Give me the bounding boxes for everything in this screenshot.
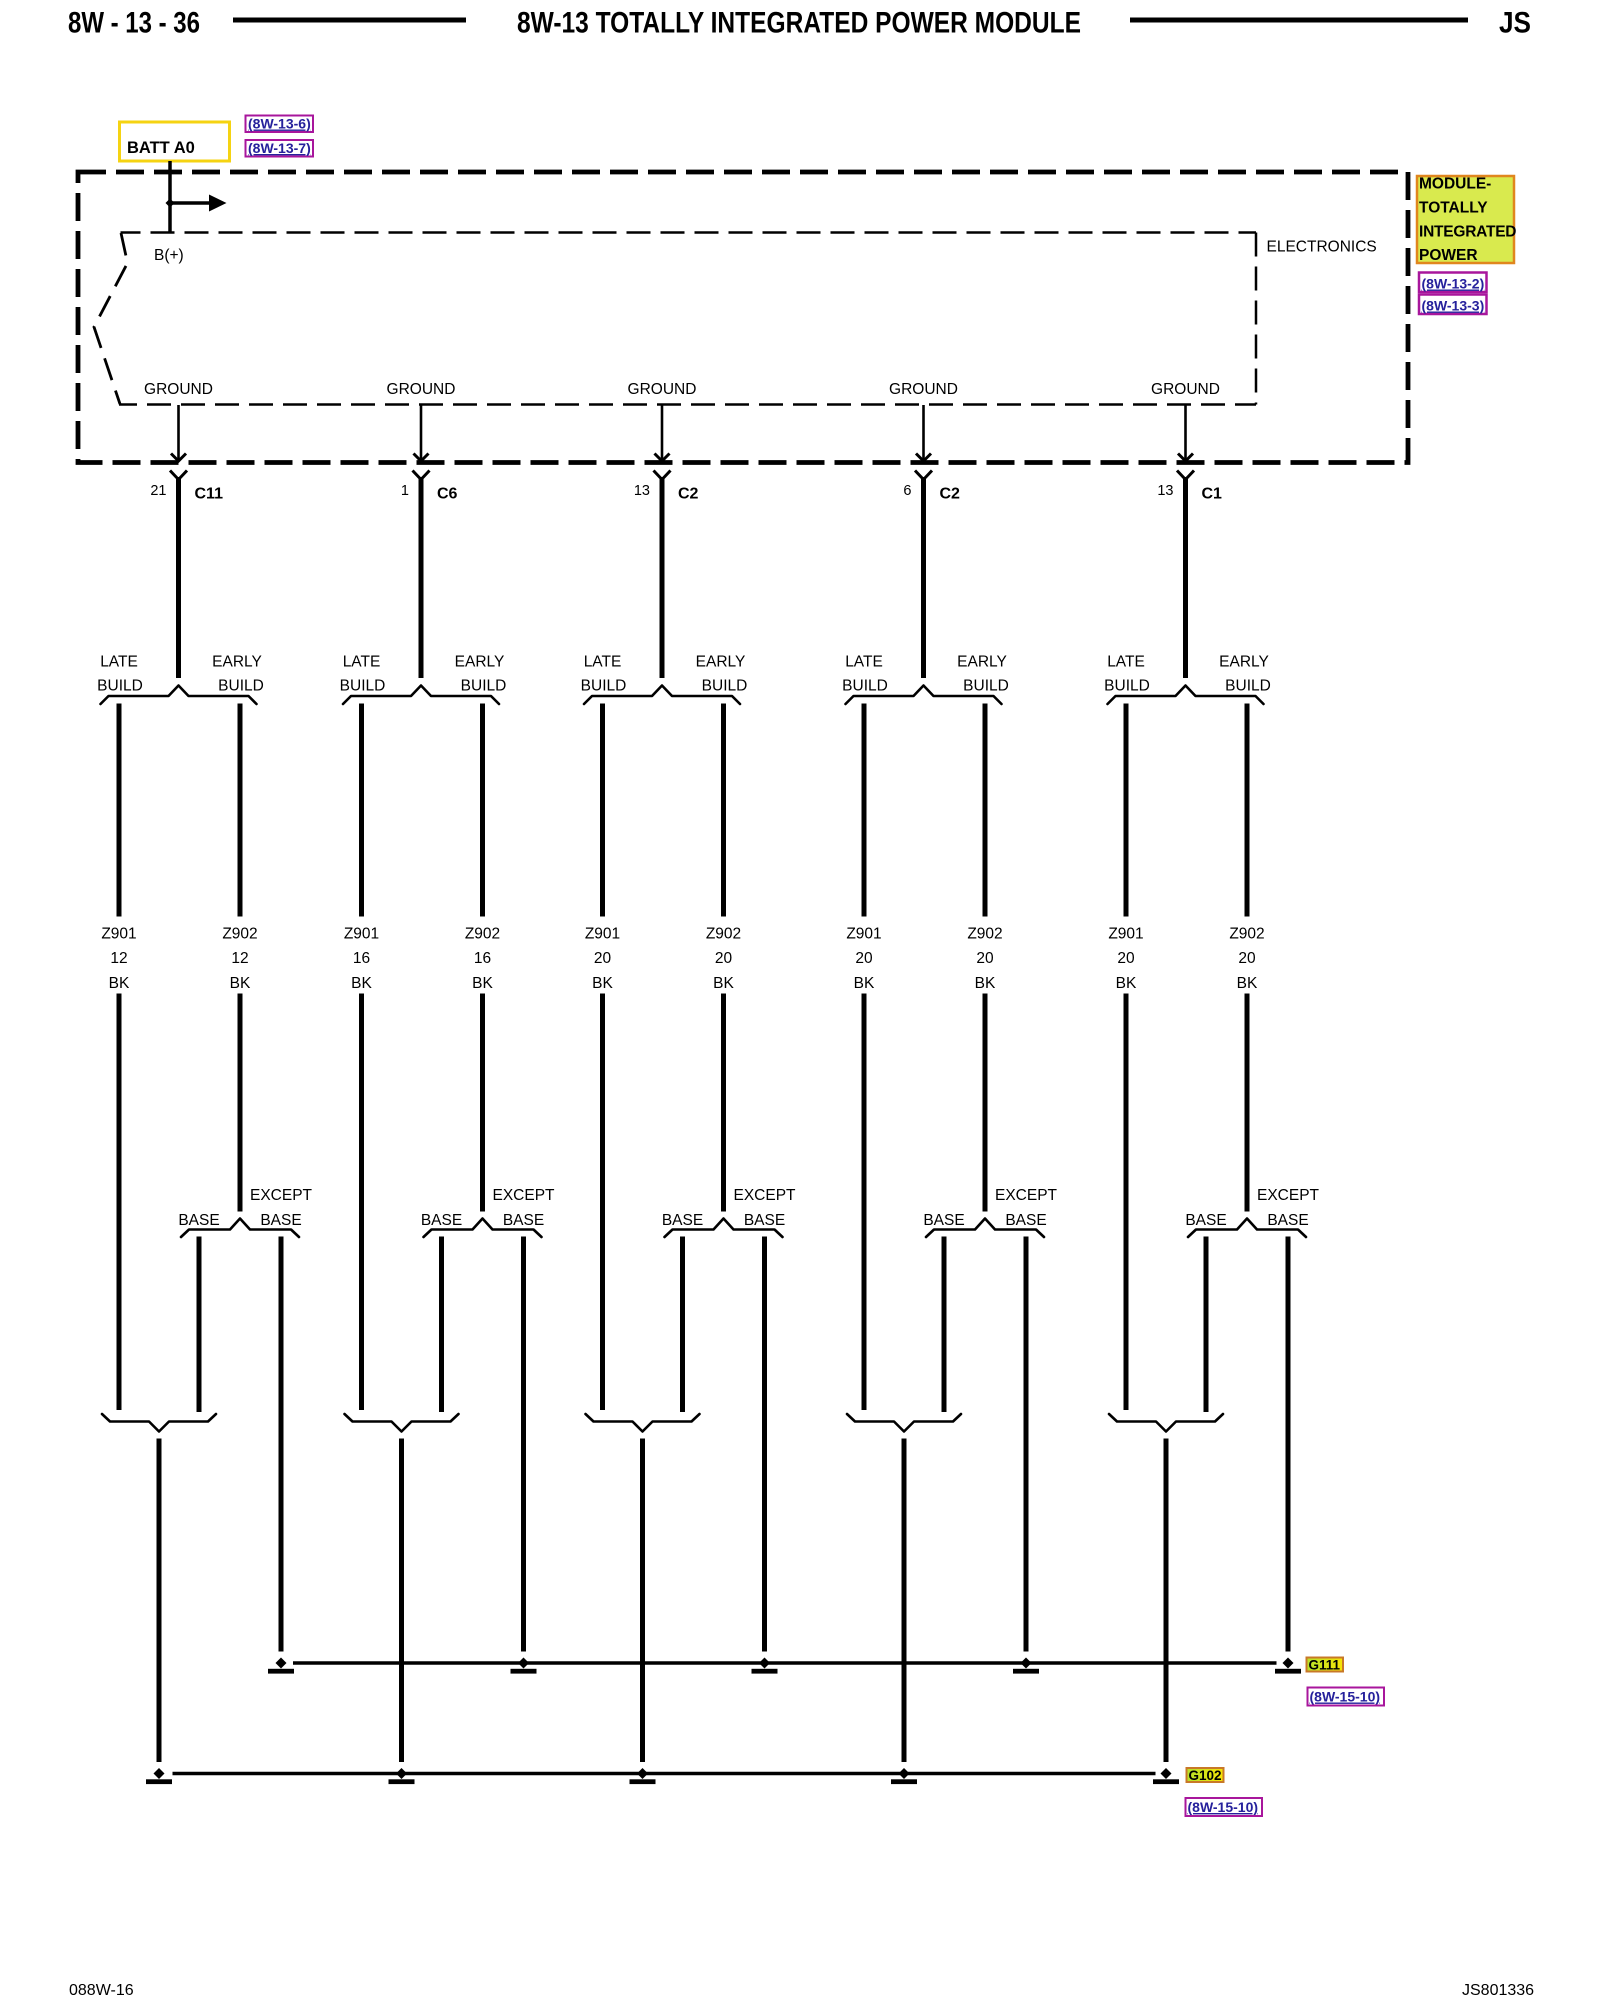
merge brace 2 — [345, 1414, 459, 1432]
module name label MODULE-TOTALLY INTEGRATED POWER — [1417, 176, 1517, 265]
wire Z902 early upper 3 — [721, 704, 726, 917]
svg-text:EARLY: EARLY — [957, 654, 1007, 671]
svg-text:GROUND: GROUND — [1151, 381, 1220, 398]
svg-text:BK: BK — [472, 975, 493, 992]
wire label Z902 16 BK — [465, 926, 500, 993]
wire Z902 early upper 5 — [1245, 704, 1250, 917]
svg-text:BUILD: BUILD — [963, 678, 1009, 695]
svg-text:12: 12 — [231, 950, 248, 967]
ground G111 label — [1307, 1658, 1344, 1673]
late build label 1 — [97, 654, 143, 695]
svg-text:TOTALLY: TOTALLY — [1419, 200, 1488, 217]
early build label 4 — [957, 654, 1009, 695]
wire Z901 late lower 1 — [117, 994, 122, 1411]
svg-text:EXCEPT: EXCEPT — [733, 1187, 796, 1204]
svg-text:LATE: LATE — [845, 654, 883, 671]
wire label Z902 12 BK — [222, 926, 257, 993]
svg-text:POWER: POWER — [1419, 247, 1478, 264]
early build label 3 — [696, 654, 748, 695]
wire label Z901 20 BK — [846, 926, 881, 993]
svg-text:20: 20 — [1238, 950, 1256, 967]
arrow internal feed — [170, 195, 227, 212]
wire Z901 late upper 5 — [1124, 704, 1129, 917]
wire merged to G102 1 — [157, 1439, 162, 1763]
svg-text:BK: BK — [713, 975, 734, 992]
svg-text:EXCEPT: EXCEPT — [250, 1187, 313, 1204]
build split brace 2 — [343, 686, 499, 705]
terminator bar G102 column 2 — [389, 1779, 415, 1784]
svg-text:12: 12 — [110, 950, 127, 967]
svg-text:C6: C6 — [437, 486, 458, 503]
wire label Z901 12 BK — [101, 926, 136, 993]
svg-text:JS801336: JS801336 — [1462, 1982, 1534, 1999]
base split brace 2 — [424, 1219, 542, 1238]
svg-text:16: 16 — [474, 950, 491, 967]
splice diamond G102 column 4 — [899, 1768, 910, 1779]
svg-text:Z902: Z902 — [222, 926, 257, 943]
wire C6 ground lead — [419, 477, 424, 678]
svg-text:BUILD: BUILD — [702, 678, 748, 695]
wire merged to G102 2 — [399, 1439, 404, 1763]
merge brace 1 — [102, 1414, 216, 1432]
electronics inner dashed box right edge — [1255, 233, 1258, 405]
svg-text:C2: C2 — [678, 486, 699, 503]
wire except-base branch 4 — [1024, 1237, 1029, 1652]
svg-text:20: 20 — [715, 950, 733, 967]
wire except-base branch 5 — [1286, 1237, 1291, 1652]
svg-text:BK: BK — [854, 975, 875, 992]
svg-text:BASE: BASE — [1267, 1212, 1308, 1229]
wire Z902 early lower 3 — [721, 994, 726, 1212]
svg-text:JS: JS — [1499, 7, 1531, 40]
wire base branch 1 — [197, 1237, 202, 1413]
early build label 5 — [1219, 654, 1271, 695]
svg-text:LATE: LATE — [100, 654, 138, 671]
svg-text:BK: BK — [1116, 975, 1137, 992]
wire base branch 5 — [1204, 1237, 1209, 1413]
late build label 2 — [340, 654, 386, 695]
wire Z902 early lower 5 — [1245, 994, 1250, 1212]
svg-text:20: 20 — [1117, 950, 1135, 967]
wire label Z901 20 BK — [1108, 926, 1143, 993]
wire C11 ground lead — [176, 477, 181, 678]
svg-text:BUILD: BUILD — [461, 678, 507, 695]
svg-text:13: 13 — [1157, 483, 1173, 499]
splice diamond G111 column 2 — [518, 1658, 529, 1669]
svg-text:6: 6 — [903, 483, 911, 499]
base split brace 5 — [1188, 1219, 1306, 1238]
svg-text:Z902: Z902 — [465, 926, 500, 943]
wire base branch 4 — [942, 1237, 947, 1413]
wire label Z902 20 BK — [1229, 926, 1264, 993]
svg-text:(8W-13-7): (8W-13-7) — [248, 140, 311, 156]
svg-text:20: 20 — [855, 950, 873, 967]
svg-text:Z902: Z902 — [1229, 926, 1264, 943]
wire label Z901 20 BK — [585, 926, 620, 993]
svg-text:MODULE-: MODULE- — [1419, 176, 1491, 193]
merge brace 4 — [847, 1414, 961, 1432]
wire Z901 late upper 3 — [600, 704, 605, 917]
terminator bar G111 column 3 — [752, 1669, 778, 1674]
wire Z902 early lower 2 — [480, 994, 485, 1212]
early build label 2 — [455, 654, 507, 695]
link 8W-13-6 — [246, 116, 314, 133]
splice diamond G102 column 3 — [637, 1768, 648, 1779]
ground G102 label — [1187, 1768, 1224, 1783]
module-totally integrated power outer dashed box — [78, 172, 1408, 463]
build split brace 3 — [584, 686, 740, 705]
svg-text:EXCEPT: EXCEPT — [995, 1187, 1058, 1204]
wire Z902 early upper 4 — [983, 704, 988, 917]
link 8W-13-3 — [1419, 295, 1487, 315]
wire Z902 early upper 2 — [480, 704, 485, 917]
svg-text:16: 16 — [353, 950, 370, 967]
late build label 4 — [842, 654, 888, 695]
link 8W-13-7 — [246, 140, 314, 157]
svg-text:B(+): B(+) — [154, 247, 184, 264]
terminator bar G111 column 1 — [268, 1669, 294, 1674]
terminator bar G102 column 5 — [1153, 1779, 1179, 1784]
svg-text:BASE: BASE — [421, 1212, 462, 1229]
connector C2 pin 13 — [634, 471, 699, 503]
merge brace 3 — [586, 1414, 700, 1432]
wire Z901 late lower 5 — [1124, 994, 1129, 1411]
svg-text:20: 20 — [594, 950, 612, 967]
svg-text:BK: BK — [975, 975, 996, 992]
wire C2 ground lead — [660, 477, 665, 678]
svg-text:BK: BK — [592, 975, 613, 992]
svg-text:BASE: BASE — [744, 1212, 785, 1229]
svg-text:20: 20 — [976, 950, 994, 967]
junction at B(+) feed — [166, 199, 175, 208]
svg-text:BUILD: BUILD — [842, 678, 888, 695]
svg-text:EXCEPT: EXCEPT — [492, 1187, 555, 1204]
svg-text:Z901: Z901 — [344, 926, 379, 943]
svg-text:BASE: BASE — [923, 1212, 964, 1229]
svg-text:EARLY: EARLY — [455, 654, 505, 671]
electronics inner dashed box bottom edge — [119, 403, 1256, 406]
svg-text:Z902: Z902 — [967, 926, 1002, 943]
wire merged to G102 3 — [640, 1439, 645, 1763]
ground output wire arrow 5 — [1178, 405, 1193, 461]
ground bus G102 wire — [173, 1772, 1156, 1776]
svg-text:Z902: Z902 — [706, 926, 741, 943]
svg-text:BUILD: BUILD — [1225, 678, 1271, 695]
svg-text:BK: BK — [1237, 975, 1258, 992]
terminator bar G102 column 4 — [891, 1779, 917, 1784]
svg-text:GROUND: GROUND — [144, 381, 213, 398]
header rule right — [1130, 18, 1468, 23]
wire C2 ground lead — [921, 477, 926, 678]
svg-text:088W-16: 088W-16 — [69, 1982, 134, 1999]
electronics inner dashed box left zigzag — [94, 233, 128, 404]
ground output wire arrow 1 — [171, 405, 186, 461]
link 8W-15-10 for G111 — [1308, 1688, 1385, 1706]
wire Z901 late lower 4 — [862, 994, 867, 1411]
svg-text:BUILD: BUILD — [1104, 678, 1150, 695]
late build label 5 — [1104, 654, 1150, 695]
wire C1 ground lead — [1183, 477, 1188, 678]
svg-text:Z901: Z901 — [585, 926, 620, 943]
wire Z901 late upper 4 — [862, 704, 867, 917]
base split brace 1 — [181, 1219, 299, 1238]
wire except-base branch 1 — [279, 1237, 284, 1652]
svg-text:BUILD: BUILD — [581, 678, 627, 695]
svg-text:21: 21 — [150, 483, 166, 499]
wire base branch 3 — [680, 1237, 685, 1413]
svg-text:13: 13 — [634, 483, 650, 499]
wire base branch 2 — [439, 1237, 444, 1413]
terminator bar G111 column 5 — [1275, 1669, 1301, 1674]
wire label Z902 20 BK — [967, 926, 1002, 993]
svg-text:Z901: Z901 — [846, 926, 881, 943]
splice diamond G111 column 5 — [1283, 1658, 1294, 1669]
terminator bar G111 column 4 — [1013, 1669, 1039, 1674]
wire except-base branch 3 — [762, 1237, 767, 1652]
ground output wire arrow 4 — [916, 405, 931, 461]
wire Z902 early lower 1 — [238, 994, 243, 1212]
wire BATT A0 to B(+) — [168, 161, 172, 232]
svg-text:BUILD: BUILD — [218, 678, 264, 695]
svg-text:BASE: BASE — [1185, 1212, 1226, 1229]
build split brace 4 — [846, 686, 1002, 705]
svg-text:8W-13 TOTALLY INTEGRATED POWER: 8W-13 TOTALLY INTEGRATED POWER MODULE — [517, 7, 1081, 40]
svg-text:BUILD: BUILD — [97, 678, 143, 695]
splice diamond G111 column 4 — [1021, 1658, 1032, 1669]
wire label Z902 20 BK — [706, 926, 741, 993]
connector C6 pin 1 — [401, 471, 458, 503]
wire Z902 early upper 1 — [238, 704, 243, 917]
wire except-base branch 2 — [521, 1237, 526, 1652]
svg-text:EXCEPT: EXCEPT — [1257, 1187, 1320, 1204]
svg-text:LATE: LATE — [1107, 654, 1145, 671]
battery feed box BATT A0 — [120, 122, 230, 161]
svg-text:GROUND: GROUND — [889, 381, 958, 398]
header rule left — [233, 18, 466, 23]
svg-text:LATE: LATE — [343, 654, 381, 671]
wire Z901 late lower 3 — [600, 994, 605, 1411]
svg-text:(8W-15-10): (8W-15-10) — [1310, 1689, 1381, 1705]
svg-text:EARLY: EARLY — [212, 654, 262, 671]
wire Z901 late lower 2 — [359, 994, 364, 1411]
ground output wire arrow 2 — [414, 405, 429, 461]
svg-text:BASE: BASE — [1005, 1212, 1046, 1229]
svg-text:(8W-15-10): (8W-15-10) — [1188, 1799, 1259, 1815]
svg-text:BK: BK — [230, 975, 251, 992]
ground bus G111 wire — [293, 1661, 1277, 1665]
svg-text:EARLY: EARLY — [1219, 654, 1269, 671]
svg-text:GROUND: GROUND — [387, 381, 456, 398]
svg-text:BK: BK — [109, 975, 130, 992]
svg-text:BASE: BASE — [178, 1212, 219, 1229]
splice diamond G111 column 3 — [759, 1658, 770, 1669]
splice diamond G102 column 2 — [396, 1768, 407, 1779]
base split brace 3 — [665, 1219, 783, 1238]
build split brace 5 — [1108, 686, 1264, 705]
svg-text:ELECTRONICS: ELECTRONICS — [1267, 239, 1377, 256]
wire merged to G102 5 — [1164, 1439, 1169, 1763]
svg-text:BUILD: BUILD — [340, 678, 386, 695]
ground output wire arrow 3 — [655, 405, 670, 461]
svg-text:C11: C11 — [195, 486, 224, 503]
merge brace 5 — [1109, 1414, 1223, 1432]
svg-text:Z901: Z901 — [1108, 926, 1143, 943]
svg-text:G102: G102 — [1189, 1768, 1222, 1783]
svg-text:GROUND: GROUND — [628, 381, 697, 398]
splice diamond G111 column 1 — [276, 1658, 287, 1669]
wire Z902 early lower 4 — [983, 994, 988, 1212]
connector C1 pin 13 — [1157, 471, 1222, 503]
connector C11 pin 21 — [150, 471, 223, 503]
svg-text:(8W-13-6): (8W-13-6) — [248, 116, 311, 132]
early build label 1 — [212, 654, 264, 695]
wire merged to G102 4 — [902, 1439, 907, 1763]
svg-text:(8W-13-3): (8W-13-3) — [1422, 298, 1485, 314]
svg-text:EARLY: EARLY — [696, 654, 746, 671]
link 8W-15-10 for G102 — [1186, 1798, 1263, 1816]
terminator bar G102 column 1 — [146, 1779, 172, 1784]
electronics inner dashed box top edge — [121, 231, 1257, 234]
splice diamond G102 column 1 — [154, 1768, 165, 1779]
build split brace 1 — [101, 686, 257, 705]
base split brace 4 — [926, 1219, 1044, 1238]
wire Z901 late upper 1 — [117, 704, 122, 917]
svg-text:BASE: BASE — [503, 1212, 544, 1229]
svg-text:G111: G111 — [1309, 1658, 1341, 1673]
svg-text:LATE: LATE — [584, 654, 622, 671]
svg-text:BK: BK — [351, 975, 372, 992]
terminator bar G111 column 2 — [511, 1669, 537, 1674]
svg-text:(8W-13-2): (8W-13-2) — [1422, 276, 1485, 292]
svg-text:BASE: BASE — [260, 1212, 301, 1229]
svg-text:BASE: BASE — [662, 1212, 703, 1229]
svg-text:Z901: Z901 — [101, 926, 136, 943]
svg-text:1: 1 — [401, 483, 409, 499]
connector C2 pin 6 — [903, 471, 960, 503]
svg-text:INTEGRATED: INTEGRATED — [1419, 224, 1517, 241]
svg-text:C2: C2 — [940, 486, 961, 503]
svg-text:8W - 13 - 36: 8W - 13 - 36 — [68, 7, 200, 40]
late build label 3 — [581, 654, 627, 695]
wire Z901 late upper 2 — [359, 704, 364, 917]
terminator bar G102 column 3 — [630, 1779, 656, 1784]
splice diamond G102 column 5 — [1161, 1768, 1172, 1779]
link 8W-13-2 — [1419, 273, 1487, 293]
svg-text:BATT A0: BATT A0 — [127, 139, 195, 157]
svg-text:C1: C1 — [1202, 486, 1223, 503]
wire label Z901 16 BK — [344, 926, 379, 993]
